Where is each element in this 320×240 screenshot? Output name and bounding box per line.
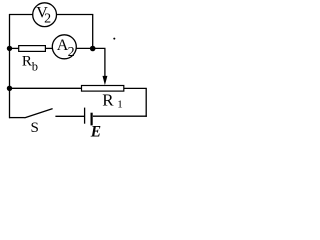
svg-text:b: b [32,60,38,74]
svg-text:E: E [90,124,101,141]
wire Rb branch left [10,47,19,49]
node junction at meters [90,46,96,52]
wire R1 to right bus [124,87,147,89]
node junction on left bus (middle wire) [7,86,12,91]
wire right bus [145,88,147,116]
svg-text:2: 2 [44,11,51,26]
switch S [25,109,53,137]
wire top right segment [57,14,94,16]
wire top left segment [9,14,33,16]
wire battery to switch [55,115,84,117]
battery E [85,108,102,141]
rheostat R1 [82,86,124,111]
svg-text:S: S [31,120,39,136]
rheostat wiper arrow [103,76,108,85]
wire Rb to A2 [45,47,52,49]
ammeter A2 [52,35,76,60]
wire slider stem [104,48,106,77]
voltmeter V2 [33,3,57,27]
svg-text:R: R [102,90,114,109]
wire bottom right [93,115,147,117]
wire A2 to slider branch [76,47,105,49]
resistor Rb [19,46,46,74]
node junction on left bus (Rb branch) [7,46,12,51]
svg-text:R: R [22,54,32,70]
svg-text:2: 2 [68,45,75,60]
wire middle (left bus to R1) [10,87,82,89]
wire right-top vertical [92,15,94,49]
wire left bus [9,14,11,118]
svg-text:1: 1 [117,98,123,110]
stray dot [113,38,115,40]
wire bottom left [9,117,25,119]
